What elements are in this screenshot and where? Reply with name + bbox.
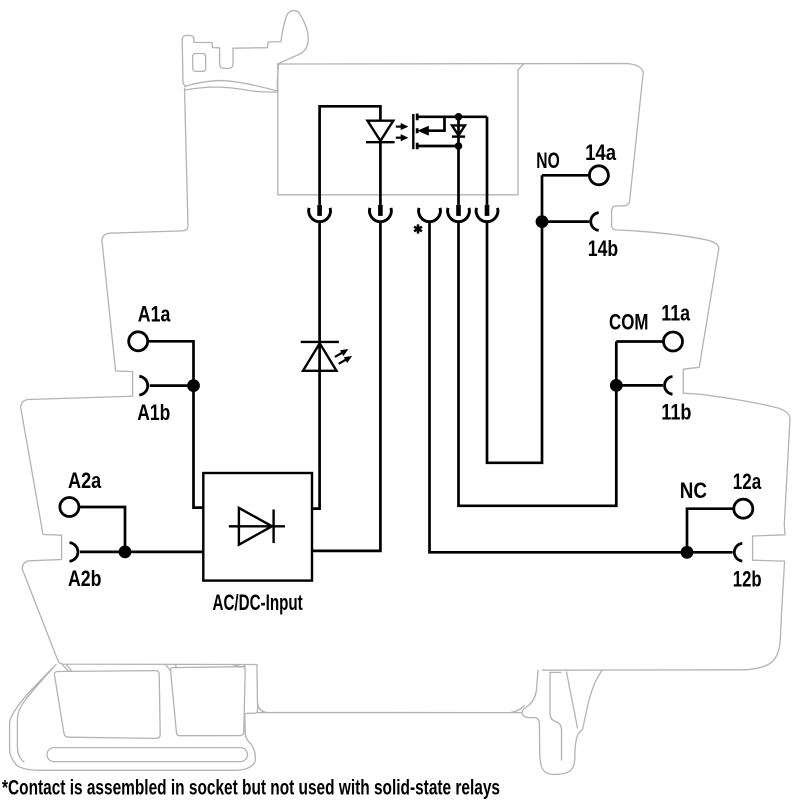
left foot inner ear [17,669,52,763]
left foot window 2 [171,667,246,736]
svg-text:A2b: A2b [68,566,102,591]
opto emission arrow 1 [396,124,407,130]
MOSFET Q1 channel stubs [416,114,419,150]
clip hole [193,54,206,72]
terminal 14b socket arc [591,213,599,231]
MOSFET Q1 gate bar [412,114,414,149]
svg-text:A1b: A1b [137,400,170,425]
circuit group (black) [60,106,753,580]
terminal 12b socket arc [734,543,742,561]
wire COM to 11a [616,340,663,343]
svg-text:11a: 11a [661,301,690,326]
svg-text:*Contact is assembled in socke: *Contact is assembled in socket but not … [2,777,500,800]
MOSFET Q1 drain wire [417,115,487,118]
indicator LED V1 triangle [303,343,337,371]
body diode D2 wire [457,117,460,205]
housing outline left side [21,88,257,665]
wire A2b to AC/DC box [80,551,203,554]
left foot rib lines [63,665,246,672]
svg-text:11b: 11b [661,400,691,425]
bridge diode D1 wire [229,525,285,527]
junction node drain [455,113,463,121]
wire NC up to 12a [687,509,734,553]
wire box to opto LED cathode (terminal 2) [312,222,380,551]
junction node NC [681,546,694,559]
svg-text:A2a: A2a [68,468,102,493]
body diode D2 cathode bar [452,135,465,137]
junction node source [455,142,463,150]
bridge diode D1 cathode bar [272,510,274,544]
asterisk unused contact [414,224,422,233]
svg-text:NO: NO [536,148,559,173]
body diode D2 triangle [452,125,465,135]
pin terminal 5 [485,205,490,216]
svg-text:12a: 12a [733,469,762,494]
terminal A2b socket arc [70,543,78,562]
left DIN foot outer [10,665,258,771]
wire COM to 11b [616,384,663,387]
left foot window 1 [54,671,160,739]
terminal A2a circle [60,498,79,517]
housing outline top and right side [277,64,790,671]
terminal 14a circle [589,166,608,185]
right foot inner channel [550,672,562,760]
terminal A1b socket arc [139,376,147,395]
relay socket cup terminal 2 [370,208,392,222]
MOSFET Q1 body wire [427,117,445,131]
relay socket cup terminal 4 [448,208,470,222]
terminal A1a circle [129,332,148,351]
indicator LED V1 emission arrow 2 [339,357,351,364]
opto LED triangle [368,121,394,141]
right foot inner diagonal [567,672,578,728]
relay socket cup terminal 1 [309,208,331,222]
MOSFET Q1 body arrow [419,127,429,135]
wire drain to terminal 5 [486,117,489,205]
terminal 11a circle [664,332,683,351]
pin terminal 4 [456,205,461,216]
indicator LED V1 emission arrow 1 [335,350,347,357]
opto block rectangle [278,64,524,195]
wire box to indicator LED branch (terminal 1) [312,222,320,509]
terminal 12a circle [734,499,753,518]
right DIN foot [522,670,602,774]
wire COM: terminal 4 down and right [459,222,617,506]
svg-text:A1a: A1a [138,302,171,327]
relay socket cup terminal 5 [476,208,498,222]
junction node A2 [119,546,132,559]
junction node A1 [187,379,200,392]
junction node COM [610,379,623,392]
svg-text:NC: NC [680,478,707,503]
svg-text:14a: 14a [585,140,616,165]
wire NO to 14a [542,174,589,177]
opto LED cathode bar [366,141,395,143]
bridge diode D1 triangle [239,508,272,545]
junction node NO [536,215,549,228]
DIN clip release lever [182,11,308,91]
left foot bottom slot [47,748,248,762]
wire opto LED cathode to terminal 2 [379,142,382,205]
svg-text:14b: 14b [588,236,618,261]
svg-text:AC/DC-Input: AC/DC-Input [213,590,304,615]
wire NO to 14b [542,220,589,223]
terminal 11b socket arc [665,377,673,395]
clip spring lower arc [185,87,277,92]
wire NO: terminal 5 down and right [487,175,542,463]
wire opto input from terminal 1 [320,106,381,205]
wire A2a to junction [79,507,125,552]
wire A1b to junction [150,384,194,387]
wire A1a to junction and AC/DC box [148,341,203,507]
opto emission arrow 2 [396,135,407,141]
pin terminal 2 [378,205,383,216]
wire NC: terminal 3 down to 12b [430,222,733,553]
indicator LED V1 cathode bar [301,341,339,343]
AC/DC input bridge box [203,473,312,581]
svg-text:12b: 12b [733,566,762,591]
svg-text:COM: COM [609,310,648,335]
relay socket cup terminal 3 (unused) [419,208,441,222]
DIN rail line between feet [258,703,525,713]
MOSFET Q1 source wire [417,145,458,148]
pin terminal 1 [317,205,322,216]
